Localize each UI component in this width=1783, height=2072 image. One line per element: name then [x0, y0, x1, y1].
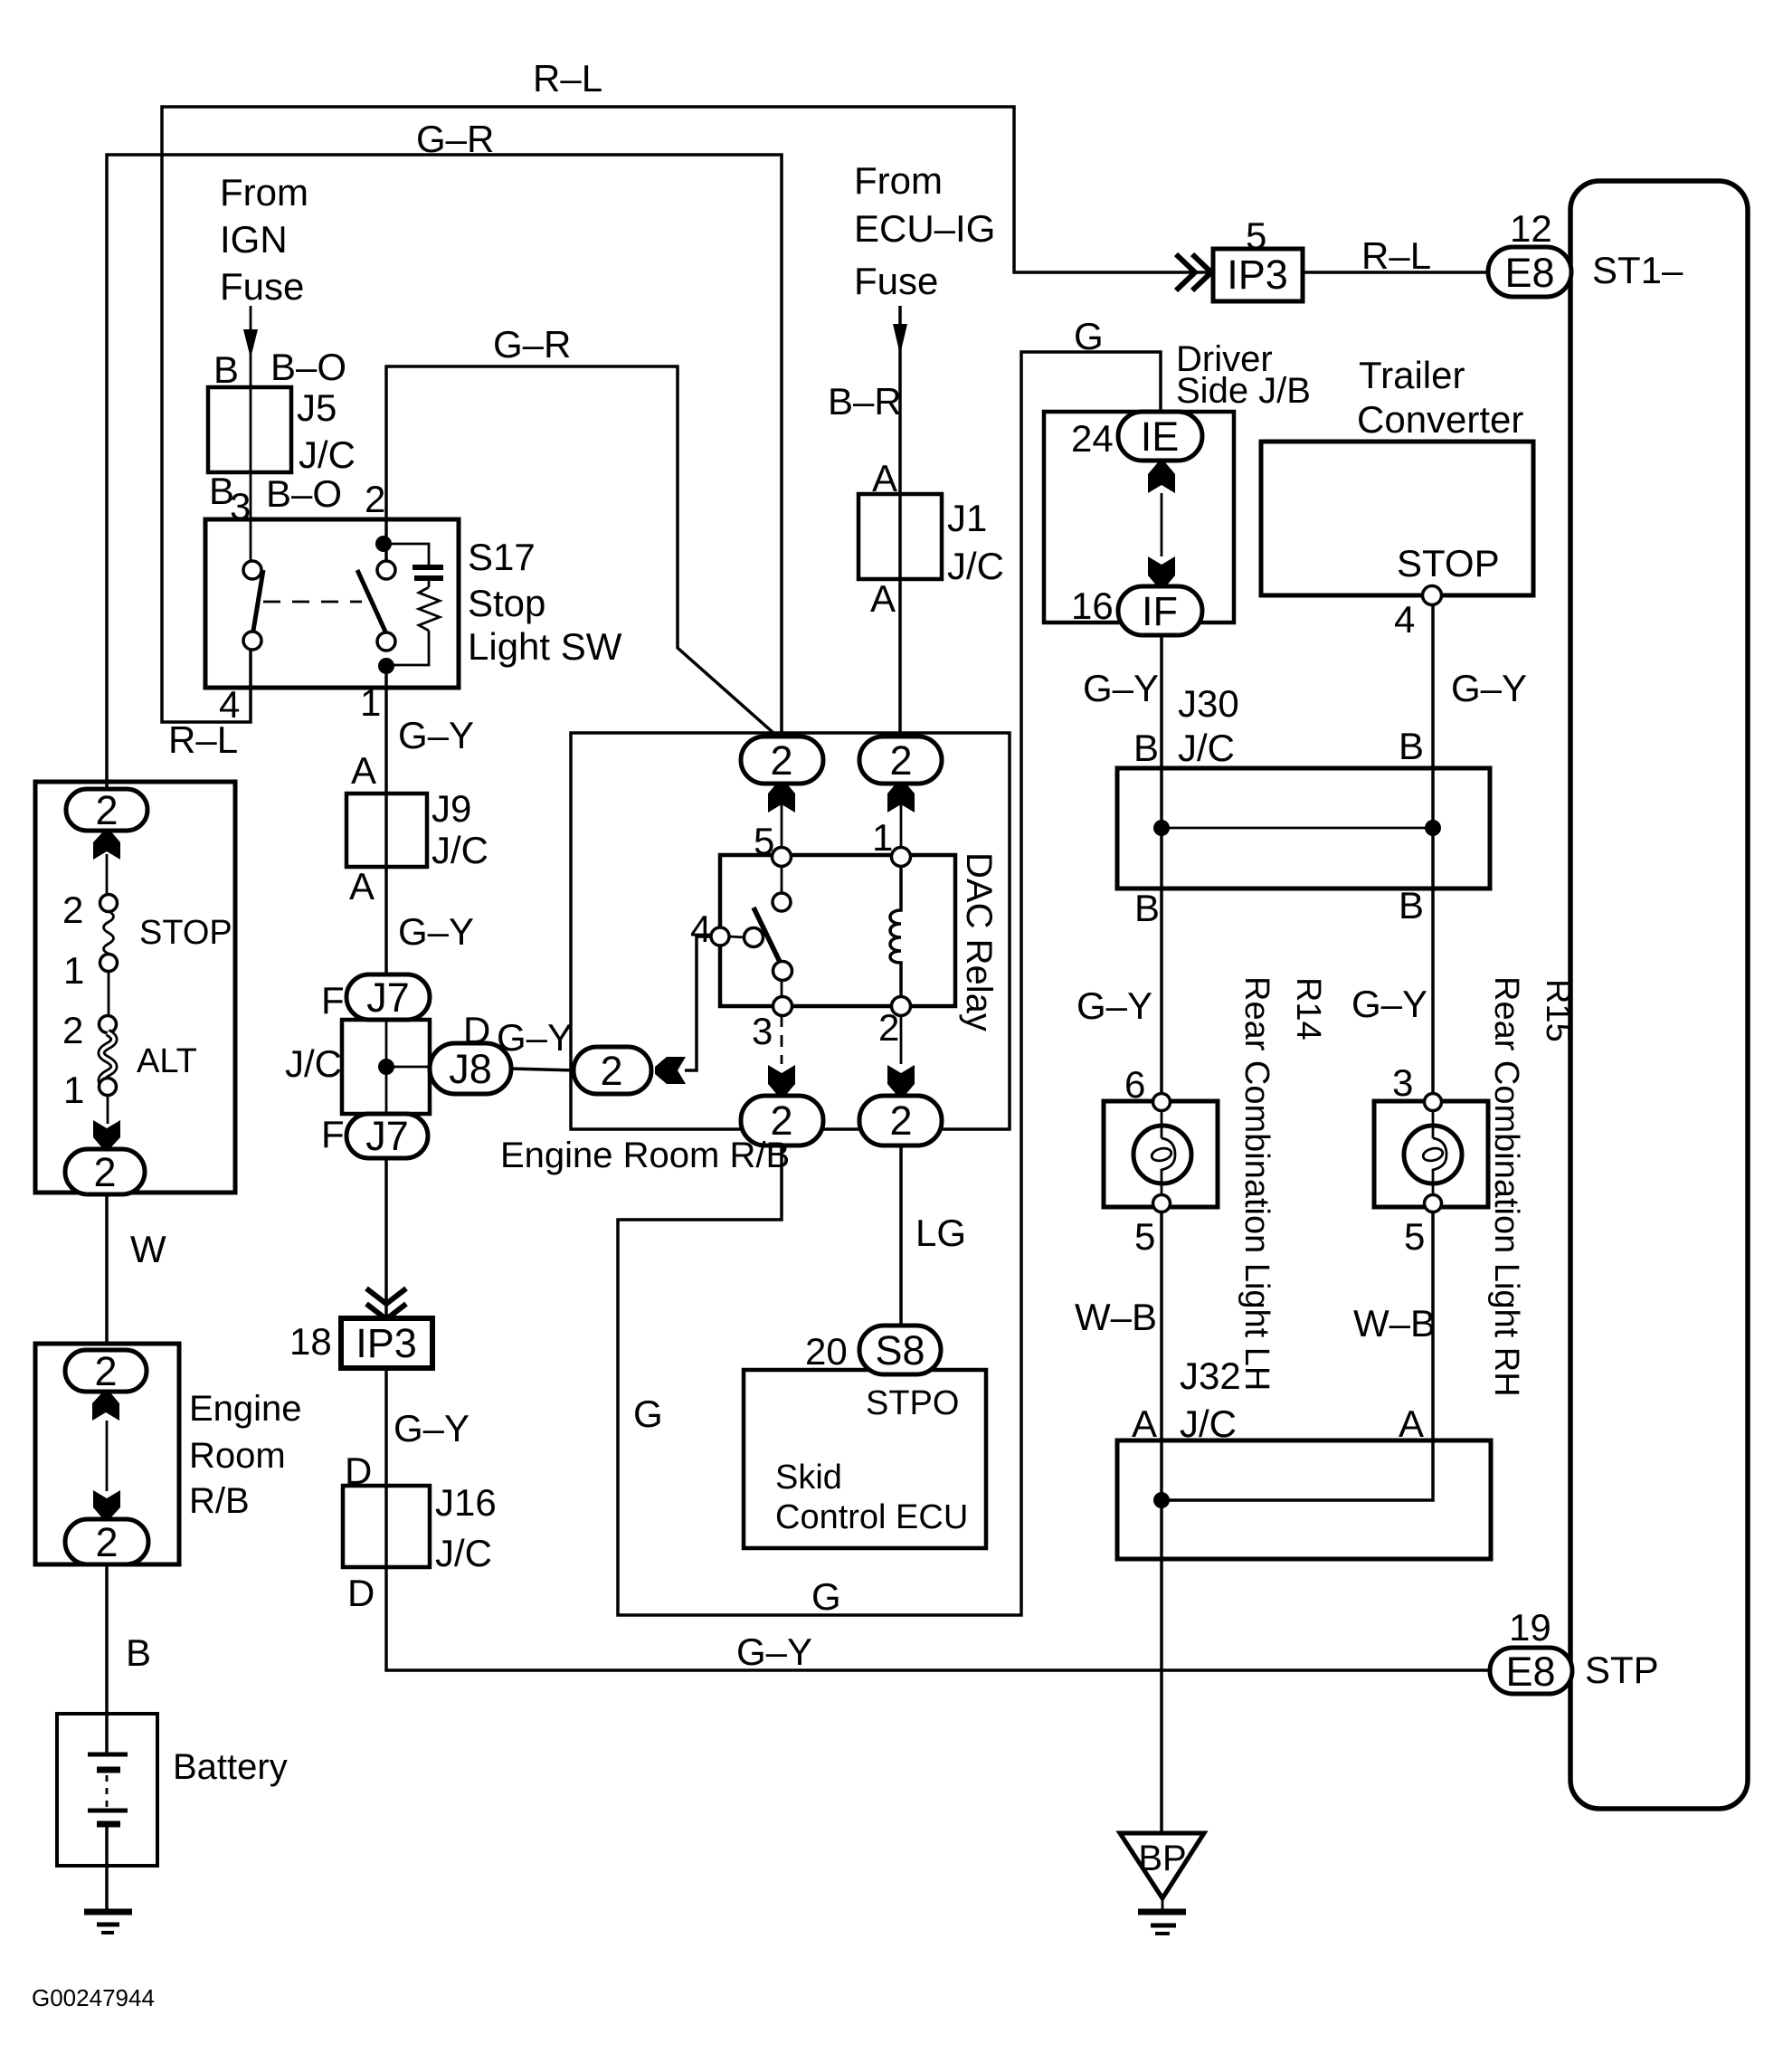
label 2 STOP fuse top — [62, 889, 83, 931]
arrow up engine room R/B — [92, 1392, 119, 1421]
svg-text:5: 5 — [1404, 1215, 1425, 1258]
svg-text:Control ECU: Control ECU — [775, 1498, 968, 1536]
label G-Y above IP3 18 — [394, 1407, 469, 1449]
label D at J8 — [463, 1009, 490, 1051]
DAC relay pin1 circle — [892, 848, 911, 867]
svg-text:B: B — [1399, 884, 1424, 927]
S17 capacitor plates — [413, 567, 443, 578]
DAC relay coil — [890, 866, 901, 997]
S17 right contact upper — [377, 561, 395, 579]
svg-text:G: G — [1074, 315, 1104, 357]
svg-text:24: 24 — [1071, 417, 1114, 460]
svg-text:1: 1 — [360, 681, 381, 724]
battery cells — [88, 1754, 128, 1824]
svg-text:A: A — [872, 457, 897, 499]
DAC relay pin5 circle — [773, 848, 792, 867]
svg-text:G–Y: G–Y — [497, 1016, 573, 1059]
label G-Y above lamp LH — [1076, 984, 1152, 1027]
svg-text:5: 5 — [1246, 214, 1266, 257]
label 19 at E8 — [1509, 1606, 1551, 1649]
wire Driver J/B internal — [1161, 493, 1163, 556]
S17 capacitor wiring — [389, 544, 429, 665]
svg-text:G–Y: G–Y — [1351, 983, 1427, 1025]
label D below J16 — [347, 1572, 375, 1614]
oval J8 — [430, 1043, 511, 1094]
wire G-Y net: S17 pin1 through J9 to J7 — [384, 674, 388, 1320]
label J/C of J16 — [435, 1532, 492, 1574]
label B below J30 right — [1399, 884, 1424, 927]
label 6 lamp LH — [1124, 1063, 1145, 1106]
svg-text:5: 5 — [1134, 1215, 1155, 1258]
svg-text:3: 3 — [230, 485, 251, 528]
label B battery feed — [126, 1631, 151, 1674]
label B-O above J5 — [270, 346, 346, 388]
svg-text:12: 12 — [1510, 207, 1552, 250]
label G-Y right of trailer wire — [1451, 667, 1527, 709]
wire G-Y long net: IP3(18) through J16 to E8(19) — [386, 1368, 1492, 1670]
svg-text:R–L: R–L — [1361, 234, 1431, 277]
oval 2 engine room R/B bottom — [65, 1519, 148, 1565]
svg-text:G: G — [633, 1392, 663, 1435]
engine room R/B main box (DAC relay housing) — [571, 733, 1010, 1129]
label LG — [915, 1212, 966, 1254]
svg-text:B: B — [1133, 727, 1159, 769]
junction connector J7 J/C box — [342, 1020, 430, 1114]
label B above J30 left — [1133, 727, 1159, 769]
ground symbol below BP — [1138, 1912, 1186, 1934]
svg-text:B: B — [213, 348, 239, 391]
label 5 at IP3 — [1246, 214, 1266, 257]
driver side J/B box — [1044, 412, 1234, 623]
J7 J/C junction dot — [378, 1059, 394, 1075]
S17 right node dot upper — [375, 536, 392, 552]
oval 2 DAC relay bottom right — [859, 1096, 942, 1145]
label 20 at S8 — [805, 1330, 848, 1373]
ground symbol below battery — [84, 1912, 132, 1933]
svg-text:J9: J9 — [432, 787, 471, 830]
label pin1 S17 — [360, 681, 381, 724]
S17 dashed link — [263, 601, 362, 604]
svg-text:D: D — [463, 1009, 490, 1051]
DAC relay moving contact circle — [773, 962, 792, 981]
label R-L bottom — [168, 718, 238, 761]
svg-text:IE: IE — [1141, 413, 1180, 460]
svg-text:E8: E8 — [1505, 1649, 1555, 1695]
svg-text:STOP: STOP — [139, 914, 232, 952]
label G-R lower — [493, 323, 571, 366]
label J5 — [297, 386, 337, 429]
svg-text:5: 5 — [754, 820, 774, 862]
label J1 — [947, 497, 987, 539]
arrow left relay pin4 — [655, 1057, 686, 1084]
label pin4 relay — [690, 908, 711, 950]
oval J7 bottom — [346, 1113, 428, 1159]
svg-text:D: D — [347, 1572, 375, 1614]
wire W-B: lamp LH pin5 through J32 to BP ground — [1160, 1211, 1163, 1833]
label R15 vertical — [1539, 979, 1577, 1042]
svg-text:Fuse: Fuse — [220, 265, 304, 308]
svg-text:1: 1 — [63, 949, 84, 992]
label D above J16 — [345, 1449, 372, 1492]
svg-text:J/C: J/C — [947, 545, 1004, 587]
svg-text:A: A — [351, 749, 376, 792]
svg-text:G00247944: G00247944 — [32, 1984, 155, 2011]
svg-text:From: From — [854, 159, 943, 202]
label J/C of J30 — [1178, 727, 1235, 769]
svg-text:LG: LG — [915, 1212, 966, 1254]
label pin5 relay — [754, 820, 774, 862]
svg-text:W–B: W–B — [1075, 1296, 1157, 1338]
svg-text:W–B: W–B — [1353, 1302, 1436, 1345]
connector IP3 pin18 box — [341, 1318, 432, 1368]
label 5 lamp LH — [1134, 1215, 1155, 1258]
chevron arrows to IP3 pin18 — [366, 1288, 406, 1319]
wire left column: STOP/ALT fuses and battery feed — [107, 854, 109, 1910]
svg-text:3: 3 — [1392, 1061, 1413, 1104]
svg-text:G–Y: G–Y — [1451, 667, 1527, 709]
STOP ALT fusebox — [35, 782, 235, 1193]
svg-text:J1: J1 — [947, 497, 987, 539]
svg-text:G–Y: G–Y — [736, 1630, 812, 1673]
arrow down relay pin3 — [768, 1065, 795, 1096]
label Battery — [173, 1747, 288, 1787]
svg-text:G–Y: G–Y — [1083, 667, 1159, 709]
svg-text:J7: J7 — [366, 974, 410, 1021]
label W — [130, 1228, 166, 1270]
svg-text:B: B — [126, 1631, 151, 1674]
label A at J32 right — [1399, 1402, 1424, 1445]
oval IE — [1118, 412, 1202, 461]
svg-text:ECU–IG: ECU–IG — [854, 207, 995, 250]
wire G-R upper net: top line to STOP connector and to DAC relay oval — [107, 155, 782, 791]
label 1 ALT fuse bottom — [63, 1069, 84, 1111]
junction connector J16 box — [343, 1486, 430, 1567]
svg-text:2: 2 — [365, 478, 385, 520]
svg-text:Battery: Battery — [173, 1747, 288, 1787]
svg-text:J5: J5 — [297, 386, 337, 429]
label A below J9 — [349, 865, 375, 908]
svg-text:J/C: J/C — [1178, 727, 1235, 769]
arrow down relay pin2 — [887, 1065, 915, 1096]
svg-text:BP: BP — [1138, 1839, 1186, 1878]
label 2 ALT fuse top — [62, 1009, 83, 1051]
wire G-R lower net: S17 pin2 up over to relay oval (with diagonal) — [386, 366, 782, 740]
svg-text:DAC Relay: DAC Relay — [959, 852, 999, 1031]
engine room R/B left box — [35, 1344, 179, 1564]
svg-text:G–R: G–R — [493, 323, 571, 366]
svg-text:S17: S17 — [468, 536, 536, 578]
chevron arrows to IP3 pin5 — [1176, 254, 1211, 290]
DAC relay fixed contact circle — [773, 893, 791, 911]
oval 2 STOP box top — [66, 787, 147, 833]
label G left branch — [633, 1392, 663, 1435]
label G-R top — [416, 118, 494, 160]
S17 left contact lower — [243, 632, 261, 650]
label pin3 S17 — [230, 485, 251, 528]
svg-text:J/C: J/C — [285, 1042, 342, 1085]
arrow up relay pin1 — [887, 782, 915, 813]
lamp LH pin6 circle — [1153, 1094, 1171, 1111]
svg-text:R–L: R–L — [533, 57, 602, 100]
svg-text:R–L: R–L — [168, 718, 238, 761]
ALT fusible link element — [101, 1032, 114, 1087]
svg-text:2: 2 — [95, 787, 118, 833]
svg-text:Stop: Stop — [468, 582, 545, 624]
label 18 — [289, 1320, 332, 1363]
oval 2 STOP box bottom — [65, 1149, 145, 1195]
label pin1 relay — [872, 816, 893, 859]
svg-text:IF: IF — [1142, 588, 1178, 634]
oval 2 engine room R/B top — [65, 1348, 147, 1394]
wire B-R: From ECU-IG fuse through J1 to DAC relay oval — [893, 306, 907, 738]
J30 junction dot right — [1425, 820, 1441, 836]
arrow up STOP box — [93, 831, 120, 860]
svg-text:4: 4 — [690, 908, 711, 950]
svg-text:ALT: ALT — [137, 1042, 197, 1080]
wire J30 junction link — [1162, 827, 1433, 830]
oval 2 DAC relay bottom left — [741, 1096, 823, 1145]
ALT fuse circle bottom — [100, 1079, 117, 1096]
junction connector J32 box — [1117, 1440, 1491, 1559]
svg-text:B–O: B–O — [270, 346, 346, 388]
DAC relay pin4 link — [729, 936, 744, 937]
svg-text:R15: R15 — [1539, 979, 1577, 1042]
junction connector J1 box — [858, 494, 942, 579]
svg-text:Trailer: Trailer — [1359, 354, 1465, 396]
svg-text:E8: E8 — [1504, 250, 1554, 296]
junction connector J30 box — [1117, 768, 1490, 889]
oval J7 top — [346, 974, 430, 1021]
svg-text:J30: J30 — [1178, 682, 1239, 725]
label F at J7 top — [321, 979, 345, 1022]
lamp RH pin5 circle — [1425, 1195, 1442, 1212]
svg-text:Converter: Converter — [1357, 398, 1523, 441]
svg-text:IGN: IGN — [220, 218, 288, 261]
oval 2 DAC relay top left — [741, 737, 823, 784]
lamp RH bulb — [1404, 1110, 1462, 1194]
svg-text:J/C: J/C — [432, 829, 488, 871]
STOP fuse element — [104, 911, 114, 954]
oval E8 pin19 — [1490, 1648, 1572, 1695]
svg-text:STPO: STPO — [866, 1384, 959, 1422]
label R-L top — [533, 57, 602, 100]
label DAC Relay vertical — [959, 852, 999, 1031]
svg-text:R14: R14 — [1289, 977, 1327, 1041]
label From IGN Fuse — [220, 171, 308, 308]
arrow down engine room R/B — [93, 1490, 120, 1519]
svg-text:A: A — [349, 865, 375, 908]
label B-R — [828, 380, 902, 423]
svg-text:3: 3 — [752, 1010, 773, 1052]
label STOP fuse — [139, 914, 232, 952]
label A at J32 left — [1132, 1402, 1157, 1445]
label J30 — [1178, 682, 1239, 725]
svg-text:Engine Room R/B: Engine Room R/B — [500, 1136, 790, 1175]
label Rear Combination Light LH vertical — [1238, 976, 1276, 1391]
svg-text:B: B — [1134, 887, 1160, 929]
svg-text:2: 2 — [889, 1098, 912, 1144]
svg-text:B–O: B–O — [266, 472, 342, 515]
label B above J30 right — [1399, 725, 1424, 767]
junction connector J5 box — [208, 387, 291, 472]
label 24 at IE — [1071, 417, 1114, 460]
svg-text:J8: J8 — [449, 1046, 492, 1092]
svg-text:Side J/B: Side J/B — [1176, 371, 1311, 411]
label Skid Control ECU — [775, 1459, 968, 1536]
label ST1- — [1592, 249, 1683, 291]
label G-Y bottom long wire — [736, 1630, 812, 1673]
label Rear Combination Light RH vertical — [1487, 976, 1525, 1397]
oval 2 DAC relay top right — [859, 737, 942, 784]
svg-text:16: 16 — [1071, 585, 1114, 627]
svg-text:2: 2 — [600, 1048, 622, 1094]
wire J8 branch: J7 junction to J8 to engine room oval to relay pin4 — [386, 936, 713, 1070]
svg-text:2: 2 — [889, 737, 912, 784]
junction connector J9 box — [346, 794, 427, 867]
svg-text:From: From — [220, 171, 308, 214]
svg-text:Rear Combination Light LH: Rear Combination Light LH — [1238, 976, 1276, 1391]
svg-text:J/C: J/C — [1180, 1402, 1237, 1445]
trailer converter box — [1261, 442, 1533, 595]
S17 right blade — [357, 570, 385, 632]
wire LG net: relay pin2 oval to S8 — [899, 1144, 903, 1327]
svg-text:Skid: Skid — [775, 1459, 842, 1497]
svg-text:2: 2 — [878, 1006, 899, 1049]
svg-text:IP3: IP3 — [356, 1320, 417, 1366]
label pin3 relay — [752, 1010, 773, 1052]
svg-text:B–R: B–R — [828, 380, 902, 423]
DAC relay blade — [754, 908, 780, 962]
svg-text:B: B — [1399, 725, 1424, 767]
svg-text:G: G — [811, 1575, 841, 1618]
label Engine Room R/B left — [189, 1389, 302, 1521]
svg-text:6: 6 — [1124, 1063, 1145, 1106]
svg-text:2: 2 — [94, 1348, 117, 1394]
DAC relay pin2 circle — [892, 997, 911, 1016]
J32 junction dot — [1153, 1492, 1170, 1508]
svg-text:2: 2 — [62, 889, 83, 931]
label 16 at IF — [1071, 585, 1114, 627]
svg-text:IP3: IP3 — [1227, 252, 1288, 298]
label STP — [1585, 1649, 1659, 1691]
svg-text:A: A — [1132, 1402, 1157, 1445]
svg-text:4: 4 — [1394, 598, 1415, 641]
label G-Y below S17 — [398, 714, 474, 756]
svg-text:Rear Combination Light RH: Rear Combination Light RH — [1487, 976, 1525, 1397]
label B below J30 left — [1134, 887, 1160, 929]
lamp LH pin5 circle — [1153, 1195, 1171, 1212]
connector IP3 pin5 box — [1213, 249, 1303, 301]
BP ground triangle — [1120, 1833, 1204, 1912]
arrow up relay pin5 — [768, 782, 795, 813]
label G at driver JB — [1074, 315, 1104, 357]
battery box — [57, 1714, 157, 1866]
label J32 — [1180, 1354, 1241, 1397]
label J16 — [435, 1481, 497, 1524]
wire R-L net: S17 pin4 to IP3(5) to E8(12) — [162, 107, 1490, 722]
rear combination light RH box — [1374, 1101, 1488, 1207]
svg-text:G–Y: G–Y — [398, 714, 474, 756]
svg-text:A: A — [870, 577, 896, 620]
svg-text:J/C: J/C — [435, 1532, 492, 1574]
svg-text:Room: Room — [189, 1436, 286, 1476]
STOP fuse circle bottom — [100, 955, 118, 972]
label 1 STOP fuse bottom — [63, 949, 84, 992]
svg-text:2: 2 — [93, 1149, 116, 1195]
svg-text:2: 2 — [62, 1009, 83, 1051]
label ALT fuse — [137, 1042, 197, 1080]
label G bottom branch — [811, 1575, 841, 1618]
label G-Y above lamp RH — [1351, 983, 1427, 1025]
S17 right contact lower — [377, 632, 395, 651]
arrow up IE — [1148, 462, 1175, 493]
label B below J5 — [209, 470, 234, 512]
lamp RH pin3 circle — [1425, 1094, 1442, 1111]
svg-text:19: 19 — [1509, 1606, 1551, 1649]
svg-text:S8: S8 — [875, 1327, 925, 1373]
label R14 vertical — [1289, 977, 1327, 1041]
svg-text:G–Y: G–Y — [394, 1407, 469, 1449]
label Trailer Converter — [1357, 354, 1523, 441]
label G-Y above J7 — [398, 910, 474, 953]
svg-text:A: A — [1399, 1402, 1424, 1445]
label R-L at IP3 — [1361, 234, 1431, 277]
label W-B lamp LH — [1075, 1296, 1157, 1338]
wire: trailer converter pin4 down through J30 to lamp RH pin3 — [1431, 603, 1435, 1095]
label Engine Room R/B main — [500, 1136, 790, 1175]
svg-text:W: W — [130, 1228, 166, 1270]
svg-text:F: F — [321, 979, 345, 1022]
label STPO — [866, 1384, 959, 1422]
svg-text:J16: J16 — [435, 1481, 497, 1524]
svg-text:18: 18 — [289, 1320, 332, 1363]
label J/C of J1 — [947, 545, 1004, 587]
svg-text:G–Y: G–Y — [1076, 984, 1152, 1027]
wire G net: relay pin3 oval down around to Driver Side J/B — [618, 352, 1161, 1615]
DAC relay pin3 circle — [773, 997, 792, 1016]
svg-text:1: 1 — [63, 1069, 84, 1111]
svg-text:STOP: STOP — [1397, 542, 1500, 585]
svg-text:F: F — [321, 1113, 345, 1155]
S17 left blade — [253, 570, 263, 631]
svg-text:G–R: G–R — [416, 118, 494, 160]
svg-text:D: D — [345, 1449, 372, 1492]
wire B/B-O: From IGN fuse through J5 to S17 pin3 — [243, 306, 258, 563]
wire W-B: lamp RH pin5 into J32 junction — [1162, 1211, 1433, 1500]
label A above J1 — [872, 457, 897, 499]
label 3 lamp RH — [1392, 1061, 1413, 1104]
wire relay pin5 feeds — [781, 782, 783, 1064]
label STOP trailer — [1397, 542, 1500, 585]
rear combination light LH box — [1104, 1101, 1218, 1207]
connector ST1 large rounded box — [1570, 181, 1748, 1809]
svg-text:J7: J7 — [365, 1113, 409, 1159]
label B-O below J5 — [266, 472, 342, 515]
svg-text:Light SW: Light SW — [468, 625, 622, 668]
arrow down STOP box — [93, 1120, 120, 1149]
label G-Y left of J30 — [1083, 667, 1159, 709]
label S17 Stop Light SW — [468, 536, 622, 668]
svg-text:Engine: Engine — [189, 1389, 302, 1429]
label 5 lamp RH — [1404, 1215, 1425, 1258]
ALT fuse circle top — [100, 1016, 117, 1033]
svg-text:2: 2 — [770, 737, 792, 784]
label J/C of J9 — [432, 829, 488, 871]
label A below J1 — [870, 577, 896, 620]
label J/C of J5 — [299, 433, 356, 476]
label W-B lamp RH — [1353, 1302, 1436, 1345]
label J/C of J7 — [285, 1042, 342, 1085]
